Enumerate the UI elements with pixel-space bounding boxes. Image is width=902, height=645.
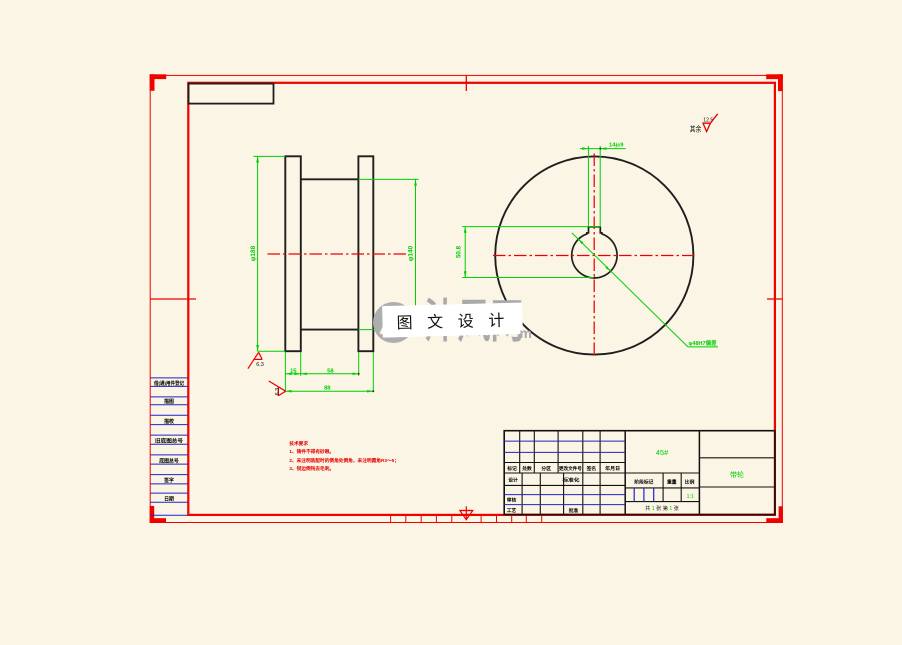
svg-text:45#: 45# xyxy=(656,448,669,457)
svg-text:底图总号: 底图总号 xyxy=(158,457,179,464)
left flange rectangle of side view xyxy=(285,156,301,351)
centering tick right xyxy=(767,298,783,300)
title block labels stage weight scale xyxy=(634,479,694,486)
title block horizontals black xyxy=(504,458,775,502)
corner mark top-left xyxy=(150,74,167,91)
svg-text:借(通)用件登记: 借(通)用件登记 xyxy=(153,380,184,387)
svg-text:58: 58 xyxy=(327,368,334,374)
svg-text:年月日: 年月日 xyxy=(605,465,620,472)
svg-text:m: m xyxy=(520,325,532,341)
svg-text:6.3: 6.3 xyxy=(275,388,281,396)
svg-text:批准: 批准 xyxy=(569,507,579,514)
hub top line xyxy=(301,178,359,180)
title block main verticals xyxy=(625,431,699,515)
svg-text:1、铸件不得有砂眼。: 1、铸件不得有砂眼。 xyxy=(289,448,334,455)
svg-text:图文设计: 图文设计 xyxy=(396,311,519,332)
front view vertical centerline xyxy=(593,154,595,357)
svg-text:分区: 分区 xyxy=(541,465,551,472)
svg-text:签字: 签字 xyxy=(163,477,174,484)
corner mark bottom-left xyxy=(150,506,166,523)
inner border frame xyxy=(188,83,775,515)
centering mark bottom with triangle xyxy=(460,506,473,520)
dimension phi140 xyxy=(358,179,418,329)
dimension 58 xyxy=(301,373,359,375)
title block columns in scale row xyxy=(663,473,681,502)
svg-text:共 1 张 第 1 张: 共 1 张 第 1 张 xyxy=(645,504,680,512)
centering tick top xyxy=(465,75,467,91)
left margin strip labels xyxy=(153,380,184,503)
svg-text:1:1: 1:1 xyxy=(686,494,694,500)
technical notes red text xyxy=(289,440,399,472)
hub bottom line xyxy=(301,329,359,331)
svg-text:带轮: 带轮 xyxy=(730,470,744,479)
svg-text:签名: 签名 xyxy=(586,465,597,472)
dimension 88 xyxy=(285,390,373,392)
svg-text:比例: 比例 xyxy=(685,479,695,486)
svg-text:审核: 审核 xyxy=(507,497,517,504)
svg-text:处数: 处数 xyxy=(521,465,532,472)
svg-text:15: 15 xyxy=(290,368,297,374)
bore diameter leader phi48 xyxy=(572,233,718,347)
extension lines below side view xyxy=(285,352,373,392)
svg-text:φ188: φ188 xyxy=(250,245,257,261)
right flange rectangle of side view xyxy=(358,156,373,351)
bottom scale ticks xyxy=(391,516,542,523)
front view horizontal centerline xyxy=(493,255,696,257)
watermark gray logo circle xyxy=(373,302,414,343)
keyway depth dimension 50.8 xyxy=(462,227,601,278)
corner mark top-right xyxy=(766,74,783,91)
svg-text:2、未注明装配时的倒角处倒角，未注明圆角R3～5；: 2、未注明装配时的倒角处倒角，未注明圆角R3～5； xyxy=(289,457,399,464)
outer border frame xyxy=(150,75,782,522)
svg-text:50.8: 50.8 xyxy=(455,245,462,258)
svg-text:φ140: φ140 xyxy=(407,245,414,261)
svg-text:3、锐边倒钝去毛刺。: 3、锐边倒钝去毛刺。 xyxy=(289,465,334,472)
title block blue ticks stage row xyxy=(634,488,654,502)
svg-text:φ48H7偏差: φ48H7偏差 xyxy=(689,339,718,347)
svg-text:标准化: 标准化 xyxy=(561,477,579,484)
svg-text:日期: 日期 xyxy=(164,495,174,502)
title block labels design row xyxy=(507,477,580,515)
roughness symbol 6.3 lower rotated xyxy=(269,381,286,396)
svg-text:工艺: 工艺 xyxy=(507,507,517,514)
keyway width dimension xyxy=(580,146,626,227)
svg-text:技术要求: 技术要求 xyxy=(289,440,308,447)
title block left columns upper xyxy=(520,431,600,473)
dimension phi188 xyxy=(254,156,286,351)
dimension 15 xyxy=(285,373,300,375)
centering tick left xyxy=(150,298,196,300)
bore with keyway xyxy=(572,227,617,278)
svg-text:其余: 其余 xyxy=(690,123,702,133)
svg-text:88: 88 xyxy=(324,386,331,392)
big circle of front view xyxy=(495,156,693,354)
watermark white box with text xyxy=(382,303,523,338)
svg-text:描图: 描图 xyxy=(164,398,174,405)
corner mark bottom-right xyxy=(766,506,783,523)
top-left reference rectangle xyxy=(189,84,274,104)
left margin strip blue lines xyxy=(151,378,189,515)
svg-text:重量: 重量 xyxy=(667,479,677,486)
svg-text:更改文件号: 更改文件号 xyxy=(559,465,582,472)
svg-text:6.3: 6.3 xyxy=(256,362,264,368)
title block small labels row1 xyxy=(506,465,620,472)
side view centerline xyxy=(268,253,409,255)
title block outer rect xyxy=(504,431,775,515)
svg-text:标记: 标记 xyxy=(506,465,517,472)
svg-text:描校: 描校 xyxy=(164,418,174,425)
svg-text:阶段标记: 阶段标记 xyxy=(634,479,653,486)
svg-text:设计: 设计 xyxy=(508,477,518,484)
title block left columns lower xyxy=(522,473,600,515)
svg-text:旧底图总号: 旧底图总号 xyxy=(155,438,183,445)
roughness symbol 6.3 upper xyxy=(248,352,262,368)
svg-text:14js9: 14js9 xyxy=(609,143,624,149)
title block blue lines xyxy=(504,441,625,505)
